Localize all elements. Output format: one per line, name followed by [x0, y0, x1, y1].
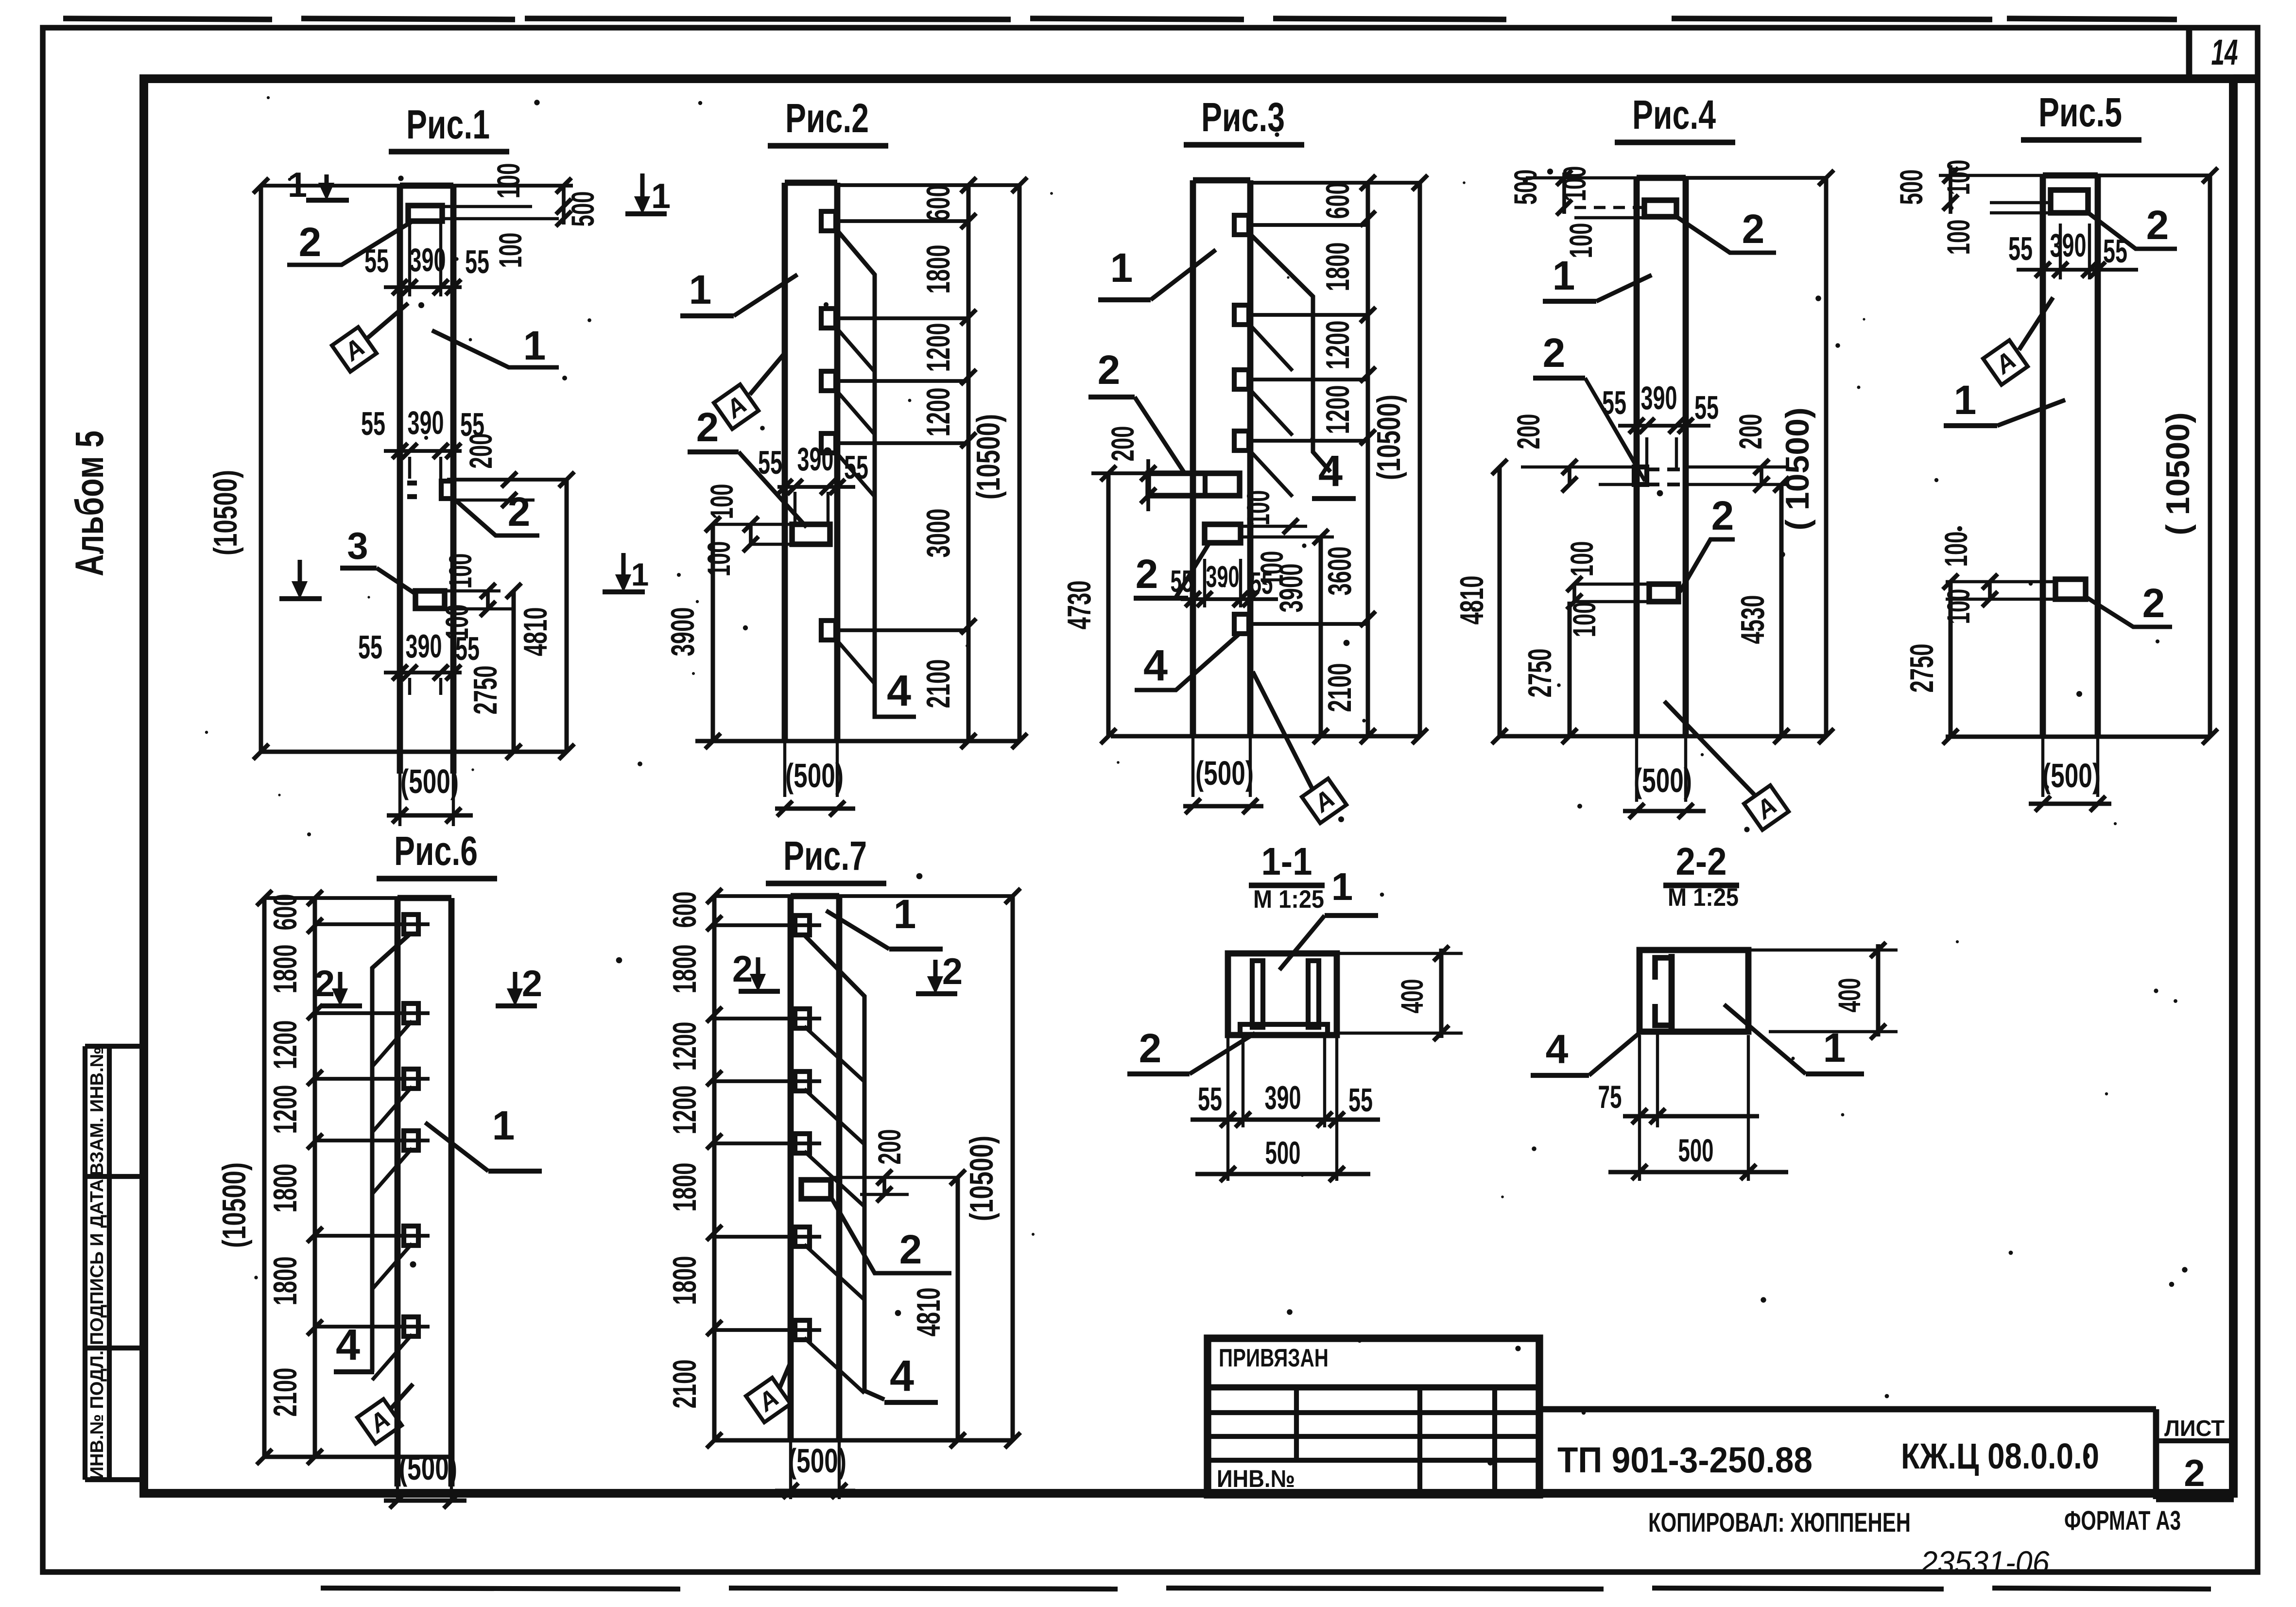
svg-text:100: 100 [1938, 532, 1974, 567]
svg-text:1800: 1800 [267, 1164, 304, 1213]
svg-text:4810: 4810 [910, 1288, 947, 1337]
svg-text:2: 2 [942, 951, 963, 992]
lower plate Рис.4 [1649, 584, 1678, 602]
svg-text:1: 1 [1331, 865, 1353, 908]
svg-text:390: 390 [1206, 560, 1240, 594]
svg-text:100: 100 [1556, 166, 1592, 202]
svg-text:400: 400 [1832, 978, 1867, 1013]
svg-text:КОПИРОВАЛ: ХЮППЕНЕН: КОПИРОВАЛ: ХЮППЕНЕН [1648, 1507, 1911, 1538]
svg-text:Рис.2: Рис.2 [785, 95, 869, 141]
svg-text:2100: 2100 [666, 1360, 703, 1409]
svg-text:55: 55 [1348, 1082, 1373, 1119]
vertical dim 3900 Рис.3 [1319, 537, 1323, 736]
svg-text:ЛИСТ: ЛИСТ [2164, 1416, 2225, 1441]
sheet cell ЛИСТ 2 [2153, 1409, 2159, 1499]
svg-text:ПРИВЯЗАН: ПРИВЯЗАН [1219, 1344, 1329, 1372]
svg-text:4: 4 [890, 1352, 914, 1400]
bottom extension Рис.3 [1111, 734, 1420, 739]
svg-text:ИНВ.№ ПОДЛ.: ИНВ.№ ПОДЛ. [87, 1350, 107, 1480]
svg-text:4: 4 [887, 667, 911, 715]
svg-text:Рис.1: Рис.1 [406, 102, 490, 147]
svg-text:600: 600 [1319, 183, 1356, 219]
flag А with leader [332, 327, 377, 372]
svg-text:(10500): (10500) [963, 1136, 1000, 1221]
svg-text:55: 55 [758, 444, 782, 481]
svg-text:390: 390 [797, 441, 834, 478]
main title bar [1539, 1406, 2156, 1413]
svg-text:390: 390 [406, 628, 442, 665]
svg-text:1: 1 [523, 323, 546, 368]
vertical dim 4810 [565, 480, 569, 752]
bottom extension Рис.7 [714, 1438, 1013, 1443]
svg-text:2750: 2750 [1521, 649, 1558, 698]
vertical dim 4730 [1106, 473, 1111, 736]
svg-text:2: 2 [299, 219, 322, 265]
svg-text:23531-06: 23531-06 [1920, 1544, 2050, 1580]
svg-text:1: 1 [492, 1103, 515, 1148]
rough scanned paper top edge [63, 18, 272, 19]
svg-text:2: 2 [522, 963, 542, 1004]
rough scanned paper bottom edge [321, 1588, 680, 1589]
leader label 1 [432, 330, 559, 367]
section mark 1-1 top right [640, 173, 645, 209]
svg-text:200: 200 [463, 433, 499, 469]
svg-text:2: 2 [314, 963, 335, 1004]
vertical dim 2750 Рис.5 [1949, 582, 1953, 737]
svg-text:2-2: 2-2 [1676, 840, 1727, 883]
svg-text:ФОРМАТ А3: ФОРМАТ А3 [2064, 1505, 2181, 1536]
svg-text:Рис.4: Рис.4 [1632, 92, 1716, 138]
channel profile section 2-2 [1669, 954, 1675, 1029]
leader to label 2 lower Рис.3 [1176, 544, 1208, 597]
svg-text:2: 2 [2142, 580, 2165, 626]
svg-text:2: 2 [696, 404, 719, 450]
svg-text:(500): (500) [1195, 754, 1254, 792]
sheet number cell top right [2186, 28, 2192, 79]
svg-text:1: 1 [689, 267, 712, 312]
svg-text:100: 100 [1940, 220, 1976, 255]
flag А bottom Рис.3 [1302, 778, 1347, 823]
extension to right top Рис.4 [1686, 176, 1826, 180]
flag А bottom Рис.4 [1744, 785, 1789, 830]
svg-text:(10500): (10500) [207, 470, 244, 555]
left overall dimension line (10500) [259, 186, 263, 752]
svg-text:4530: 4530 [1734, 595, 1771, 644]
vertical dim 4810 Рис.7 [956, 1177, 960, 1440]
bottom extension Рис.2 [695, 739, 1019, 743]
column outline Рис.1 [397, 186, 403, 774]
svg-text:390: 390 [1265, 1079, 1301, 1116]
svg-text:200: 200 [1510, 414, 1546, 449]
svg-text:390: 390 [408, 404, 444, 441]
segment dimension line Рис.2 [967, 185, 971, 741]
svg-text:1200: 1200 [1319, 321, 1356, 370]
svg-text:1800: 1800 [666, 1256, 703, 1305]
svg-text:500: 500 [1507, 170, 1543, 205]
flag А Рис.7 [746, 1378, 791, 1422]
svg-text:1: 1 [894, 891, 916, 937]
svg-text:75: 75 [1598, 1079, 1622, 1115]
svg-text:100: 100 [701, 541, 737, 577]
top plate mark 2 Рис.5 [2051, 190, 2088, 213]
svg-text:4810: 4810 [517, 607, 554, 657]
svg-text:(500): (500) [400, 762, 459, 800]
svg-text:Рис.7: Рис.7 [783, 833, 867, 879]
second plate Рис.3 [1205, 524, 1241, 543]
collector leader to label 4 Рис.3 [1250, 234, 1330, 472]
svg-text:2: 2 [899, 1227, 922, 1272]
svg-text:100: 100 [1940, 589, 1976, 624]
svg-text:200: 200 [1105, 426, 1140, 462]
svg-text:КЖ.Ц 08.0.0.0: КЖ.Ц 08.0.0.0 [1901, 1436, 2099, 1476]
bottom extension Рис.5 [1946, 735, 2210, 739]
protruding plate mark 2 Рис.2 [792, 524, 830, 544]
section marks 2 Рис.6 [338, 972, 343, 1001]
svg-text:1200: 1200 [1319, 385, 1356, 434]
svg-text:М 1:25: М 1:25 [1253, 885, 1324, 914]
svg-text:1200: 1200 [267, 1085, 304, 1134]
leader from lower square to label 4 [1135, 633, 1241, 690]
svg-text:2: 2 [2184, 1451, 2205, 1494]
svg-text:1: 1 [1954, 377, 1977, 423]
svg-text:600: 600 [666, 892, 703, 928]
svg-text:М 1:25: М 1:25 [1668, 883, 1739, 912]
svg-text:100: 100 [490, 163, 526, 199]
svg-text:ИНВ.№: ИНВ.№ [1217, 1465, 1295, 1492]
scan speckle noise [205, 96, 2188, 1466]
svg-text:3900: 3900 [664, 607, 701, 657]
svg-text:55: 55 [2008, 230, 2033, 267]
svg-text:1200: 1200 [920, 323, 957, 372]
top extension and overall line (10500) Рис.7 [714, 894, 1013, 898]
svg-text:1: 1 [1110, 245, 1133, 291]
svg-text:100: 100 [492, 233, 528, 268]
svg-text:55: 55 [1602, 384, 1626, 421]
segment dimension line Рис.7 [712, 896, 717, 1440]
svg-text:55: 55 [361, 405, 385, 442]
svg-text:(10500): (10500) [970, 414, 1007, 500]
section mark bottom left [298, 560, 302, 594]
overall dimension line (10500) Рис.3 [1418, 183, 1422, 736]
stamp table ПРИВЯЗАН [1208, 1338, 1539, 1495]
left margin stamp table [83, 1046, 87, 1480]
svg-text:(500): (500) [2042, 757, 2101, 795]
svg-text:4: 4 [1546, 1026, 1569, 1072]
overall dimension line (10500) Рис.6 [262, 898, 267, 1457]
svg-text:Рис.5: Рис.5 [2038, 89, 2122, 135]
svg-text:1: 1 [288, 166, 307, 205]
leader to label 2 [287, 222, 411, 265]
channel web plate section 1-1 [1240, 1024, 1328, 1035]
svg-text:ВЗАМ. ИНВ.№: ВЗАМ. ИНВ.№ [87, 1047, 107, 1176]
svg-text:100: 100 [442, 553, 478, 589]
svg-text:55: 55 [358, 629, 382, 666]
svg-text:2100: 2100 [267, 1368, 304, 1417]
svg-text:2: 2 [732, 949, 753, 990]
svg-text:55: 55 [844, 449, 868, 486]
column outline Рис.3 [1190, 180, 1196, 736]
svg-text:4810: 4810 [1453, 576, 1490, 625]
flag А Рис.6 [357, 1399, 402, 1444]
svg-text:55: 55 [2103, 233, 2127, 270]
svg-text:ТП 901-3-250.88: ТП 901-3-250.88 [1557, 1440, 1813, 1480]
svg-text:Рис.6: Рис.6 [394, 828, 478, 874]
middle dashed plate mark 2 [407, 481, 419, 485]
central plate mark 2 Рис.7 [801, 1180, 831, 1199]
svg-text:55: 55 [1198, 1081, 1222, 1118]
svg-text:3000: 3000 [920, 509, 957, 558]
segment dimension line Рис.3 [1366, 183, 1370, 736]
leader lines to collector Рис.7 [803, 934, 884, 1400]
svg-text:(500): (500) [785, 757, 844, 795]
svg-text:400: 400 [1395, 979, 1430, 1014]
column outline Рис.2 [782, 183, 788, 741]
svg-text:500: 500 [1893, 170, 1929, 205]
svg-text:55: 55 [364, 242, 389, 279]
square stirrup marks on right edge [821, 211, 836, 231]
overall dimension line (10500) Рис.5 [2208, 175, 2212, 737]
column outline Рис.6 [395, 898, 401, 1486]
collector leader to label 4 [837, 230, 916, 717]
svg-text:ПОДПИСЬ И ДАТА: ПОДПИСЬ И ДАТА [87, 1179, 107, 1345]
svg-text:Альбом 5: Альбом 5 [68, 431, 112, 576]
column outline Рис.5 [2040, 175, 2046, 737]
svg-text:1200: 1200 [267, 1020, 304, 1070]
svg-text:500: 500 [1678, 1132, 1714, 1168]
svg-text:200: 200 [871, 1129, 907, 1165]
small plate on left edge Рис.4 [1634, 467, 1647, 484]
svg-text:4: 4 [336, 1321, 360, 1369]
svg-text:1800: 1800 [666, 945, 703, 994]
lower plate Рис.5 [2055, 579, 2086, 599]
svg-text:2: 2 [1742, 206, 1765, 252]
svg-text:1800: 1800 [666, 1163, 703, 1212]
svg-text:600: 600 [920, 185, 957, 222]
svg-text:1: 1 [1553, 253, 1575, 298]
square stirrup marks Рис.7 [795, 916, 810, 935]
flag А Рис.2 [714, 384, 759, 429]
svg-text:100: 100 [1240, 490, 1276, 526]
svg-text:2: 2 [2146, 202, 2169, 248]
vertical dim 3900 [711, 524, 715, 741]
svg-text:3900: 3900 [1273, 564, 1310, 613]
svg-text:1: 1 [651, 177, 671, 216]
lower embedded plate mark [415, 591, 445, 608]
vertical dim 4810 Рис.4 [1498, 467, 1502, 736]
section mark bottom right [621, 553, 626, 587]
svg-text:3: 3 [347, 524, 368, 567]
svg-text:1-1: 1-1 [1261, 840, 1312, 883]
bottom extension Рис.4 [1500, 734, 1826, 739]
svg-text:390: 390 [1641, 380, 1677, 416]
leader to middle label 2 [455, 500, 539, 536]
svg-text:2750: 2750 [467, 666, 504, 715]
overall dimension line (10500) Рис.4 [1824, 178, 1829, 736]
square stirrup marks Рис.3 [1234, 215, 1249, 235]
square stirrup marks Рис.6 [404, 915, 418, 934]
svg-text:Рис.3: Рис.3 [1201, 94, 1285, 140]
channel flanges inside section 1-1 [1252, 961, 1263, 1027]
svg-text:1200: 1200 [920, 388, 957, 437]
svg-text:100: 100 [1564, 541, 1600, 577]
vertical dim 2750 Рис.4 [1568, 602, 1572, 736]
svg-text:2: 2 [1139, 1025, 1162, 1071]
svg-text:(10500): (10500) [216, 1162, 253, 1248]
flag А Рис.5 [1983, 340, 2028, 385]
svg-text:2: 2 [1711, 493, 1734, 538]
svg-text:1200: 1200 [666, 1022, 703, 1071]
svg-text:500: 500 [565, 191, 601, 227]
svg-text:1800: 1800 [920, 245, 957, 294]
column outline Рис.7 [788, 896, 794, 1440]
svg-text:(10500): (10500) [1370, 395, 1407, 480]
svg-text:55: 55 [465, 243, 489, 280]
section 2-2 outline [1640, 950, 1748, 1032]
svg-text:2100: 2100 [1321, 663, 1358, 712]
svg-text:1800: 1800 [267, 945, 304, 994]
top embedded plate mark 2 [408, 206, 442, 221]
svg-text:4: 4 [1143, 641, 1168, 690]
svg-text:55: 55 [1171, 564, 1193, 599]
bottom extension Рис.6 [264, 1455, 451, 1459]
svg-text:(500): (500) [788, 1442, 846, 1480]
svg-text:55: 55 [455, 630, 480, 667]
svg-text:2100: 2100 [920, 659, 957, 708]
svg-text:4: 4 [1318, 447, 1343, 496]
overall dimension line (10500) Рис.2 [1018, 185, 1022, 741]
svg-text:(500): (500) [399, 1449, 457, 1487]
svg-text:2750: 2750 [1903, 644, 1940, 693]
svg-text:390: 390 [2050, 227, 2087, 264]
svg-text:4730: 4730 [1061, 581, 1098, 630]
svg-text:3600: 3600 [1321, 547, 1358, 596]
svg-text:2: 2 [1098, 347, 1121, 393]
svg-text:100: 100 [704, 484, 740, 519]
svg-text:(500): (500) [1634, 761, 1692, 799]
svg-text:2: 2 [1136, 551, 1158, 597]
svg-text:14: 14 [2211, 32, 2238, 72]
column outline Рис.4 [1634, 178, 1640, 736]
svg-text:1800: 1800 [1319, 242, 1356, 292]
vertical dim 2750 [512, 591, 516, 752]
first protruding plate Рис.3 [1148, 473, 1240, 496]
svg-text:1200: 1200 [666, 1086, 703, 1135]
top plate mark 2 Рис.4 [1644, 200, 1676, 217]
svg-text:2: 2 [1543, 330, 1566, 376]
svg-text:55: 55 [1694, 389, 1719, 426]
segment dimension line Рис.6 [313, 898, 317, 1457]
top extension lines and 100/500 dims right [261, 184, 573, 188]
svg-text:200: 200 [1732, 414, 1768, 449]
bottom extension line Рис.1 [261, 750, 567, 754]
section 1-1 outline [1228, 953, 1337, 1035]
svg-text:1800: 1800 [267, 1257, 304, 1306]
vertical dim 4530 Рис.4 [1779, 484, 1784, 736]
collector leader to label 4 Рис.6 [372, 933, 411, 1372]
svg-text:1: 1 [631, 556, 649, 592]
svg-text:( 10500): ( 10500) [2159, 412, 2196, 535]
dashed hidden plate lines Рис.4 [1647, 467, 1686, 471]
svg-text:500: 500 [1265, 1135, 1301, 1171]
section mark 1-1 top left [325, 174, 329, 194]
section marks 2 Рис.7 [756, 957, 760, 986]
svg-text:( 10500): ( 10500) [1779, 407, 1816, 530]
